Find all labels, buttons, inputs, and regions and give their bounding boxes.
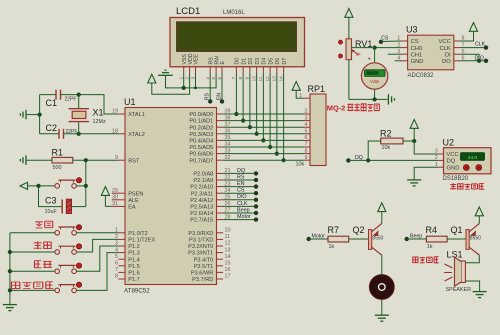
svg-text:10k: 10k — [382, 145, 391, 151]
svg-text:CS: CS — [237, 188, 245, 194]
svg-text:RS: RS — [205, 92, 211, 100]
svg-text:DI: DI — [445, 52, 451, 58]
svg-text:Beep: Beep — [237, 207, 250, 213]
svg-text:MQ-2: MQ-2 — [327, 103, 345, 112]
svg-text:D1: D1 — [241, 58, 247, 65]
svg-text:P0.7/AD7: P0.7/AD7 — [189, 158, 213, 164]
svg-text:R4: R4 — [426, 225, 438, 235]
svg-text:9: 9 — [305, 155, 308, 161]
svg-text:P0.6/AD6: P0.6/AD6 — [189, 152, 213, 158]
svg-text:12: 12 — [225, 241, 231, 247]
svg-text:P2.1/A9: P2.1/A9 — [193, 178, 213, 184]
svg-text:8550: 8550 — [372, 235, 383, 241]
svg-text:2: 2 — [435, 155, 438, 161]
svg-text:D0: D0 — [235, 58, 241, 65]
svg-text:D2: D2 — [248, 58, 254, 65]
svg-text:D6: D6 — [275, 58, 281, 65]
svg-text:7: 7 — [305, 142, 308, 148]
svg-text:DQ: DQ — [447, 159, 456, 165]
svg-text:AT89C52: AT89C52 — [124, 288, 150, 295]
svg-text:GND: GND — [411, 59, 424, 65]
svg-text:6: 6 — [305, 135, 308, 141]
svg-text:U2: U2 — [443, 138, 455, 148]
svg-text:CS: CS — [381, 36, 389, 42]
svg-text:P2.6/A14: P2.6/A14 — [190, 211, 213, 217]
svg-text:P3.4/T0: P3.4/T0 — [194, 257, 214, 263]
svg-text:P1.1/T2EX: P1.1/T2EX — [128, 238, 155, 244]
svg-text:LM016L: LM016L — [223, 10, 245, 16]
svg-text:E: E — [220, 61, 226, 65]
svg-text:13: 13 — [225, 247, 231, 253]
svg-text:22PF: 22PF — [65, 97, 77, 103]
svg-text:P1.0/T2: P1.0/T2 — [128, 231, 148, 237]
svg-text:U1: U1 — [124, 97, 136, 107]
svg-text:5: 5 — [305, 129, 308, 135]
svg-text:DO: DO — [442, 59, 451, 65]
svg-text:3: 3 — [305, 115, 308, 121]
svg-text:7: 7 — [115, 267, 118, 273]
svg-text:P1.7: P1.7 — [128, 277, 140, 283]
svg-text:P1.6: P1.6 — [128, 271, 140, 277]
svg-text:XTAL1: XTAL1 — [128, 112, 145, 118]
svg-text:P3.1/TXD: P3.1/TXD — [189, 238, 213, 244]
svg-text:6: 6 — [115, 261, 118, 267]
svg-text:GND: GND — [447, 165, 460, 171]
svg-text:CLK: CLK — [440, 46, 451, 52]
svg-text:D7: D7 — [282, 58, 288, 65]
svg-text:P3.6/WR: P3.6/WR — [191, 271, 213, 277]
svg-text:12Mz: 12Mz — [93, 119, 106, 125]
svg-text:10k: 10k — [296, 162, 305, 168]
svg-text:RP1: RP1 — [308, 84, 326, 94]
svg-text:Beep: Beep — [410, 233, 422, 239]
svg-text:22PF: 22PF — [66, 129, 78, 135]
svg-text:500: 500 — [53, 165, 62, 171]
svg-text:P1.5: P1.5 — [128, 264, 140, 270]
svg-text:P3.0/RXD: P3.0/RXD — [188, 231, 213, 237]
svg-text:4: 4 — [305, 122, 308, 128]
svg-text:RS: RS — [237, 174, 245, 180]
svg-text:ALE: ALE — [128, 198, 139, 204]
svg-text:44.0: 44.0 — [468, 155, 477, 160]
svg-text:5: 5 — [115, 254, 118, 260]
svg-text:VEE: VEE — [194, 54, 200, 65]
svg-text:1k: 1k — [329, 244, 335, 250]
svg-text:16: 16 — [225, 267, 231, 273]
svg-text:LCD1: LCD1 — [176, 6, 200, 17]
svg-text:EN: EN — [237, 181, 245, 187]
svg-text:X1: X1 — [93, 108, 104, 118]
svg-text:P2.7/A15: P2.7/A15 — [190, 218, 213, 224]
svg-text:2: 2 — [305, 109, 308, 115]
svg-text:8: 8 — [305, 148, 308, 154]
svg-text:D4: D4 — [262, 58, 268, 65]
svg-text:P1.3: P1.3 — [128, 251, 140, 257]
svg-text:30: 30 — [112, 195, 118, 201]
svg-text:P3.5/T1: P3.5/T1 — [194, 264, 214, 270]
svg-text:Volts: Volts — [370, 79, 379, 84]
svg-text:1: 1 — [299, 93, 302, 99]
svg-text:U3: U3 — [406, 25, 418, 35]
svg-text:Q2: Q2 — [353, 225, 365, 235]
svg-text:CLK: CLK — [475, 42, 486, 48]
svg-text:17: 17 — [225, 274, 231, 280]
svg-text:P2.4/A12: P2.4/A12 — [190, 198, 213, 204]
svg-text:Q1: Q1 — [451, 225, 463, 235]
svg-text:EN: EN — [216, 93, 222, 100]
svg-text:P3.3/INT1: P3.3/INT1 — [188, 251, 213, 257]
svg-text:D3: D3 — [255, 58, 261, 65]
svg-text:VCC: VCC — [447, 152, 459, 158]
svg-text:ADC0832: ADC0832 — [408, 73, 435, 79]
svg-text:DS18B20: DS18B20 — [443, 176, 469, 182]
svg-text:P0.1/AD1: P0.1/AD1 — [189, 119, 213, 125]
svg-text:SPEAKER: SPEAKER — [446, 287, 472, 293]
svg-text:C3: C3 — [45, 196, 57, 206]
svg-text:31: 31 — [112, 201, 118, 207]
svg-text:C2: C2 — [46, 123, 58, 133]
svg-text:14: 14 — [225, 254, 231, 260]
svg-text:EA: EA — [128, 205, 136, 211]
svg-text:10uF: 10uF — [45, 209, 58, 215]
svg-text:VCC: VCC — [439, 39, 451, 45]
svg-text:1k: 1k — [427, 244, 433, 250]
svg-text:P0.2/AD2: P0.2/AD2 — [189, 125, 213, 131]
svg-text:RST: RST — [128, 158, 140, 164]
svg-text:CS: CS — [411, 39, 419, 45]
svg-text:D5: D5 — [268, 58, 274, 65]
svg-text:3: 3 — [435, 149, 438, 155]
svg-text:P3.2/INT0: P3.2/INT0 — [188, 244, 213, 250]
svg-text:P2.3/A11: P2.3/A11 — [191, 191, 214, 197]
svg-text:29: 29 — [112, 188, 118, 194]
svg-text:CH1: CH1 — [411, 52, 423, 58]
svg-text:R1: R1 — [52, 148, 64, 158]
svg-text:P2.2/A10: P2.2/A10 — [190, 185, 213, 191]
svg-text:11: 11 — [225, 234, 231, 240]
svg-text:R2: R2 — [380, 129, 392, 139]
svg-text:10: 10 — [225, 228, 231, 234]
svg-text:DQ: DQ — [237, 168, 245, 174]
svg-text:P2.5/A13: P2.5/A13 — [190, 205, 213, 211]
svg-text:8550: 8550 — [470, 235, 481, 241]
svg-text:8: 8 — [115, 274, 118, 280]
svg-text:P1.2: P1.2 — [128, 244, 140, 250]
svg-text:P3.7/RD: P3.7/RD — [192, 277, 213, 283]
svg-text:P0.0/AD0: P0.0/AD0 — [189, 112, 213, 118]
svg-text:Motor: Motor — [312, 233, 326, 239]
svg-text:XTAL2: XTAL2 — [128, 132, 145, 138]
svg-text:P0.3/AD3: P0.3/AD3 — [189, 132, 213, 138]
svg-text:+: + — [368, 57, 371, 63]
svg-text:P0.5/AD5: P0.5/AD5 — [189, 145, 213, 151]
svg-text:DIO: DIO — [475, 55, 484, 61]
svg-text:CLK: CLK — [237, 201, 248, 207]
svg-text:P0.4/AD4: P0.4/AD4 — [189, 139, 213, 145]
svg-text:CH0: CH0 — [411, 46, 423, 52]
svg-text:P2.0/A8: P2.0/A8 — [193, 172, 213, 178]
svg-text:DIO: DIO — [237, 194, 247, 200]
svg-text:PSEN: PSEN — [128, 191, 143, 197]
svg-text:P1.4: P1.4 — [128, 257, 140, 263]
svg-text:C1: C1 — [46, 98, 58, 108]
svg-text:15: 15 — [225, 261, 231, 267]
svg-text:R7: R7 — [328, 225, 340, 235]
svg-text:Motor: Motor — [237, 214, 251, 220]
